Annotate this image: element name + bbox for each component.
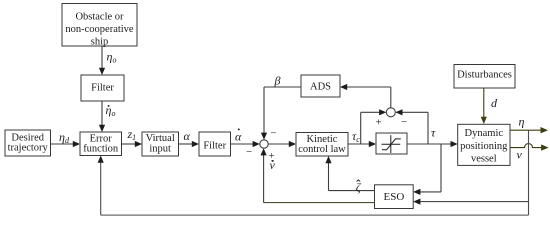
svg-text:ship: ship — [91, 36, 109, 47]
block: saturation — [376, 133, 407, 154]
summing junction 2 (anti-windup) — [386, 108, 395, 117]
svg-text:function: function — [83, 144, 119, 155]
block: Disturbances — [454, 65, 515, 89]
wire: ESO output v hat to junction 1 bottom — [261, 148, 376, 202]
svg-text:control law: control law — [298, 144, 346, 155]
wire: Error function to Virtual input (z1) — [122, 141, 143, 147]
wire: obstacle ship to Filter (eta_o) — [99, 46, 105, 75]
block: ESO — [375, 185, 414, 209]
svg-text:ESO: ESO — [384, 191, 405, 203]
label alpha dot — [235, 128, 242, 143]
wire: ADS output left (beta) — [264, 86, 301, 88]
wire: junction 2 up and left into ADS — [340, 84, 391, 108]
svg-text:Filter: Filter — [203, 140, 226, 151]
wire: Filter to Error function (eta_o filtered) — [99, 101, 105, 132]
wire: vessel output nu with hop over eta branch — [510, 144, 549, 151]
svg-text:positioning: positioning — [460, 141, 508, 152]
summing junction 1 — [260, 140, 268, 148]
svg-text:+: + — [375, 116, 381, 128]
svg-text:input: input — [149, 143, 171, 154]
svg-text:Dynamic: Dynamic — [465, 128, 504, 139]
wire: tau_c branch up to junction 2 (plus input) — [361, 109, 387, 144]
wire: saturation to vessel (tau) — [407, 141, 458, 147]
block: Kinetic control law — [296, 133, 348, 157]
wire: eta branch down (feedback trunk) — [528, 130, 530, 215]
wire: ADS output beta down into junction 1 — [261, 87, 267, 140]
svg-text:−: − — [246, 146, 252, 158]
svg-text:v: v — [517, 147, 523, 161]
label v hat — [270, 158, 276, 172]
svg-text:τ: τ — [431, 126, 436, 140]
wire: Desired trajectory to Error function — [51, 141, 81, 147]
block: Virtual input — [142, 132, 179, 156]
svg-text:Disturbances: Disturbances — [457, 70, 512, 81]
svg-text:Filter: Filter — [91, 83, 114, 94]
wire: bottom feedback to Error function — [98, 156, 529, 216]
wire: tau branch up to junction 2 (minus input) — [395, 109, 428, 144]
block: Desired trajectory — [5, 130, 51, 156]
wire: Virtual input to Filter (alpha) — [179, 141, 200, 147]
block: Filter (main row) — [199, 132, 231, 156]
svg-text:trajectory: trajectory — [8, 143, 49, 154]
svg-text:α: α — [235, 130, 242, 144]
svg-text:−: − — [270, 127, 276, 139]
svg-text:vessel: vessel — [471, 153, 497, 164]
wire: eta feedback into ESO right — [413, 199, 528, 205]
wire: vessel output eta — [510, 127, 548, 133]
wire: Kinetic control law to saturation (tau_c) — [348, 141, 376, 147]
svg-text:β: β — [274, 74, 281, 88]
svg-text:−: − — [401, 116, 407, 128]
wire: ESO output zeta hat to Kinetic control law — [325, 156, 375, 191]
svg-text:ADS: ADS — [310, 82, 331, 93]
label eta_o dot — [106, 103, 116, 118]
wire: Disturbances to vessel (d) — [481, 88, 487, 124]
wire: tau branch down into ESO right — [413, 144, 441, 195]
svg-text:non-cooperative: non-cooperative — [65, 24, 134, 35]
svg-text:d: d — [491, 96, 498, 110]
block: Filter (top) — [81, 75, 124, 101]
block: Obstacle or non-cooperative ship — [62, 4, 137, 48]
block: ADS — [301, 75, 340, 97]
svg-text:α: α — [184, 129, 191, 143]
svg-text:η: η — [519, 115, 525, 129]
wire: junction 1 to Kinetic control law — [268, 141, 296, 147]
label zeta hat — [356, 180, 362, 194]
block: Error function — [80, 132, 122, 156]
svg-text:Obstacle or: Obstacle or — [75, 11, 124, 22]
block: Dynamic positioning vessel — [458, 124, 510, 165]
wire: Filter to summing junction 1 (alpha dot, minus) — [231, 141, 260, 147]
